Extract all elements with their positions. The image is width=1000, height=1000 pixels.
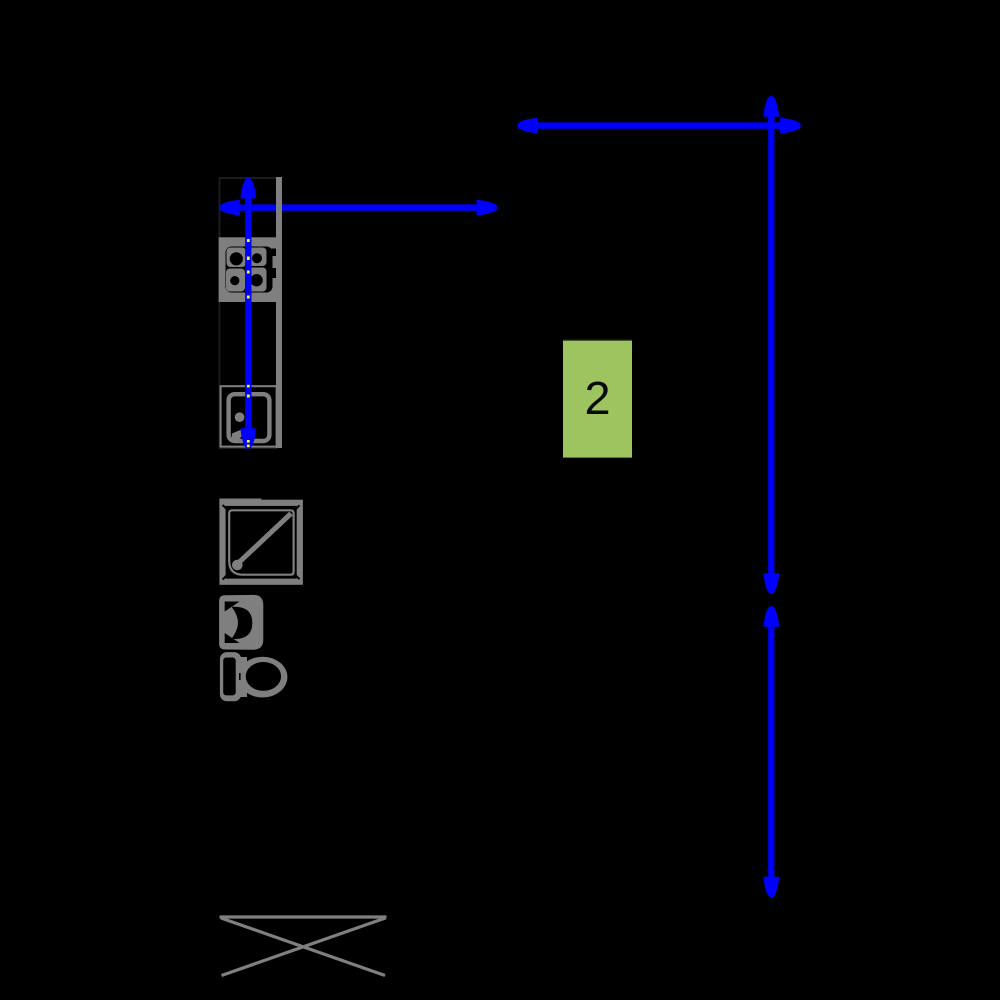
toilet	[220, 652, 288, 701]
dimension: kitchen vertical	[240, 178, 256, 449]
wall segment (gray, on top of blue)	[276, 177, 282, 448]
room 2 green area	[563, 339, 632, 458]
dimension: right vertical upper segment	[763, 96, 779, 594]
shower tray	[219, 499, 299, 582]
dimension: top horizontal	[517, 118, 800, 134]
dimension: kitchen horizontal	[219, 200, 497, 216]
svg-text:2: 2	[584, 372, 610, 424]
dimension: right vertical lower segment	[763, 606, 779, 897]
table (X legs)	[220, 917, 387, 976]
stove plate	[219, 237, 277, 302]
yellow crossing dashes	[247, 239, 250, 447]
kitchen sink unit	[221, 386, 277, 446]
washbasin	[219, 595, 263, 650]
kitchen counter outline	[220, 178, 278, 448]
